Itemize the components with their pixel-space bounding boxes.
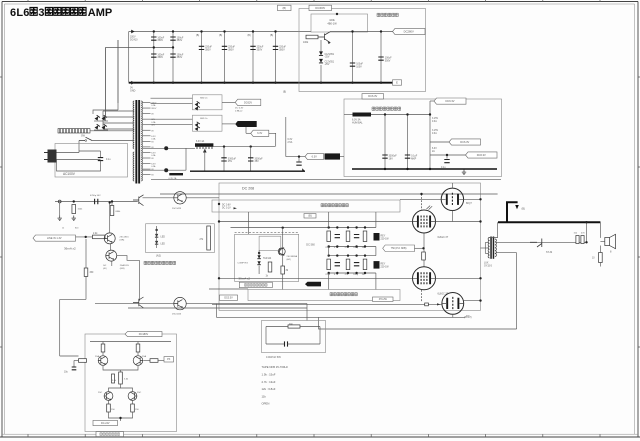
- power resistor dark: [374, 233, 380, 241]
- resistor collector 2: [136, 344, 140, 352]
- bias inner box: [259, 236, 281, 250]
- svg-text:100k: 100k: [303, 41, 309, 44]
- wire down to diff: [59, 299, 61, 356]
- svg-text:2SA: 2SA: [95, 355, 100, 358]
- PT primary winding lower: [133, 152, 134, 181]
- wire riser 2: [117, 40, 119, 110]
- wire heater dc: [429, 101, 431, 169]
- svg-text:(B): (B): [283, 92, 286, 94]
- wire into diff box: [60, 355, 79, 357]
- wire: [158, 360, 164, 362]
- wire speaker +: [600, 241, 604, 243]
- resistor 2.2k in: [93, 235, 106, 239]
- resistor tall 27k: [207, 226, 211, 250]
- power transformer PT core: [135, 100, 137, 184]
- wire PT tap: [143, 157, 151, 159]
- wire PT tap left: [103, 122, 134, 124]
- amplifier section box: [219, 183, 481, 310]
- transistor Q1 cascode top: [104, 233, 115, 244]
- capacitor 0.1uF: [444, 160, 449, 163]
- wire: [430, 154, 466, 156]
- wire 6.3 out: [286, 156, 305, 158]
- junction: [172, 46, 174, 48]
- wire: [73, 361, 75, 367]
- svg-text:(B): (B): [219, 34, 222, 37]
- wire PT tap: [143, 135, 151, 137]
- junction: [446, 154, 448, 156]
- wire: [245, 127, 247, 133]
- NFB compensation box: [262, 321, 326, 353]
- junction: [153, 30, 155, 32]
- LED diode D8: [257, 261, 261, 264]
- bias servo box: [235, 234, 299, 281]
- svg-text:GND: GND: [130, 89, 136, 92]
- resistor emitter: [281, 266, 285, 274]
- junction: [336, 245, 338, 247]
- wire plate upper: [436, 221, 481, 223]
- net tag solid: [325, 153, 341, 159]
- capacitor line filter: [98, 158, 103, 161]
- svg-text:1M: 1M: [362, 274, 365, 276]
- svg-text:2SC: 2SC: [137, 392, 142, 394]
- terminal strip bar 2: [169, 173, 183, 175]
- wire heater: [371, 114, 430, 116]
- svg-text:LED: LED: [161, 243, 166, 245]
- svg-text:220-1W: 220-1W: [381, 238, 390, 240]
- wire to rectifier diodes: [104, 48, 106, 118]
- wire heater ground rail: [190, 170, 305, 172]
- wire diff top rail: [90, 341, 171, 343]
- svg-text:6L6GC 3T: 6L6GC 3T: [438, 237, 449, 239]
- resistor bank: [327, 259, 331, 270]
- tube V4 driver lower: [442, 293, 464, 315]
- resistor bank: [346, 259, 350, 270]
- LED D10: [155, 241, 158, 244]
- svg-text:(A2): (A2): [287, 258, 291, 261]
- wire B+ riser: [104, 48, 106, 122]
- wire bottom join: [109, 412, 133, 418]
- wire: [79, 150, 101, 152]
- wire nfb long: [319, 317, 517, 329]
- svg-text:0.2A: 0.2A: [151, 137, 156, 140]
- capacitor bank: [354, 263, 359, 266]
- dashed screen tap V1: [421, 194, 423, 210]
- power switch SW1: [79, 137, 92, 140]
- LED diode D7: [257, 255, 261, 258]
- wire to rectifier diodes 2: [117, 40, 119, 103]
- net tag rect3: [251, 130, 269, 136]
- junction: [429, 168, 431, 170]
- svg-text:2A: 2A: [432, 150, 435, 153]
- dashed screen tap V2: [421, 290, 423, 302]
- wire: [216, 304, 218, 318]
- label tone switch lower: [330, 293, 357, 296]
- junction: [351, 82, 353, 84]
- svg-text:2SC1815: 2SC1815: [120, 237, 130, 239]
- junction: [328, 272, 330, 274]
- resistor grid stopper: [425, 303, 429, 306]
- svg-text:LUX: LUX: [484, 262, 489, 264]
- net tag PK NFB: [383, 245, 415, 252]
- svg-text:2SA: 2SA: [142, 355, 147, 358]
- wire heater cap branch: [250, 147, 252, 172]
- wire ground rail: [129, 82, 393, 84]
- svg-text:12k : 6.8uF: 12k : 6.8uF: [262, 387, 276, 391]
- wire rect2 out: [222, 123, 235, 125]
- junction: [172, 30, 174, 32]
- arrow right: [234, 207, 237, 209]
- wire to speaker: [599, 222, 601, 238]
- junction: [258, 252, 260, 254]
- bias network box: [146, 224, 215, 253]
- junction: [422, 247, 424, 249]
- junction: [328, 254, 330, 256]
- wire rect1 out: [222, 101, 235, 103]
- wire led string: [258, 250, 260, 255]
- wire: [328, 212, 330, 228]
- junction: [336, 13, 338, 15]
- net tag DC280V out: [393, 28, 426, 34]
- wire: [375, 247, 377, 256]
- svg-text:DC180V: DC180V: [139, 333, 149, 336]
- transistor Q regulator: [318, 32, 330, 44]
- svg-text:350V: 350V: [205, 49, 211, 52]
- gain switch band upper: [212, 200, 400, 212]
- terminal comb: [197, 147, 212, 149]
- svg-text:4B0-1W: 4B0-1W: [327, 22, 337, 26]
- capacitor bank: [335, 235, 340, 238]
- junction: [355, 226, 357, 228]
- svg-text:6.3V: 6.3V: [288, 139, 293, 141]
- transistor Q3 second stage: [174, 192, 186, 204]
- wire: [320, 65, 322, 83]
- junction: [336, 226, 338, 228]
- junction: [298, 155, 300, 157]
- junction: [380, 30, 382, 32]
- resistor tail: [84, 268, 88, 276]
- junction: [420, 193, 422, 195]
- wire rectifier feed: [128, 32, 130, 83]
- wire heater bus: [213, 146, 275, 148]
- wire: [430, 141, 449, 143]
- regulator section box: [299, 9, 426, 92]
- terminal strip bar: [195, 143, 213, 147]
- diode D12: [195, 105, 200, 110]
- fuse bar: [58, 129, 90, 133]
- junction: [218, 220, 220, 222]
- wire 6.3 riser: [285, 117, 287, 157]
- wire: [108, 401, 110, 404]
- svg-text:36mA x2: 36mA x2: [64, 246, 76, 250]
- wire bank top: [329, 255, 376, 257]
- wire ef line 2: [186, 303, 307, 305]
- junction: [347, 254, 349, 256]
- svg-text:0.3A: 0.3A: [432, 132, 437, 135]
- svg-text:0.9A x2: 0.9A x2: [235, 109, 243, 112]
- svg-text:PK: PK: [167, 358, 171, 361]
- capacitor bank: [335, 263, 340, 266]
- wire bank bottom: [329, 272, 376, 274]
- wire PT tap: [143, 168, 151, 170]
- wire 6.3 drop: [269, 133, 276, 146]
- svg-text:(B): (B): [308, 215, 312, 218]
- output transformer OPT core: [490, 237, 492, 259]
- wire: [329, 31, 331, 33]
- junction: [250, 145, 252, 147]
- net tag PK: [164, 357, 174, 362]
- junction: [218, 203, 220, 205]
- svg-text:(A2): (A2): [156, 254, 161, 258]
- OPT secondary winding: [495, 239, 497, 257]
- svg-text:DC6.3V: DC6.3V: [445, 99, 454, 103]
- wire heater secondary 2: [143, 169, 186, 171]
- svg-text:3: 3: [38, 7, 44, 19]
- junction: [328, 245, 330, 247]
- wire filter branch: [275, 32, 277, 83]
- svg-text:SBD 2x: SBD 2x: [200, 118, 208, 120]
- label cascode voltage amp: [144, 261, 176, 264]
- junction: [274, 30, 276, 32]
- capacitor heater filter: [248, 158, 253, 161]
- arrow grid: [437, 303, 440, 305]
- junction: [200, 82, 202, 84]
- wire PT tap: [143, 102, 151, 104]
- wire: [74, 360, 79, 362]
- svg-text:100k: 100k: [329, 18, 335, 22]
- svg-text:0.2A: 0.2A: [151, 165, 156, 168]
- wire PT tap left: [103, 128, 134, 130]
- wire driver plate lower: [464, 300, 481, 302]
- junction: [252, 82, 254, 84]
- junction: [380, 82, 382, 84]
- tube V2 6L6 lower: [413, 267, 436, 290]
- wire PT tap: [143, 113, 151, 115]
- svg-text:AC100V: AC100V: [63, 172, 76, 176]
- wire between tubes: [423, 234, 425, 268]
- wire tail drop: [85, 239, 87, 268]
- svg-text:(6CG7): (6CG7): [464, 317, 472, 319]
- wire input: [76, 236, 93, 238]
- ground heater: [462, 170, 466, 175]
- resistor coupling: [422, 252, 426, 260]
- junction: [85, 236, 87, 238]
- junction: [347, 245, 349, 247]
- svg-text:0.0047uF 50V: 0.0047uF 50V: [266, 356, 281, 359]
- wire: [266, 326, 288, 328]
- wire: [246, 132, 251, 134]
- svg-text:320V: 320V: [151, 108, 157, 110]
- junction: [328, 226, 330, 228]
- arrow heater up: [203, 149, 207, 153]
- wire: [102, 352, 104, 355]
- net tag B3 solid: [305, 282, 321, 287]
- dashed bias line: [235, 231, 299, 233]
- junction: [585, 221, 587, 223]
- wire: [137, 342, 139, 345]
- wire tail drop 2: [85, 276, 87, 299]
- junction: [429, 113, 431, 115]
- svg-text:DC 6.3V: DC 6.3V: [235, 108, 244, 110]
- wire filter branch: [172, 32, 174, 83]
- ground heater rail: [302, 168, 305, 171]
- svg-text:2SA1015: 2SA1015: [120, 264, 130, 267]
- resistor bank: [327, 231, 331, 242]
- net tag DC-24V: [93, 420, 118, 425]
- wire lower grid line: [219, 277, 412, 279]
- capacitor C1a: [170, 37, 175, 40]
- wire regulator output: [330, 31, 393, 33]
- junction: [364, 254, 366, 256]
- transistor Q5: [98, 356, 108, 366]
- svg-text:350V: 350V: [228, 49, 234, 52]
- wire: [111, 202, 113, 206]
- svg-text:3.15V: 3.15V: [432, 118, 438, 120]
- svg-text:DC 560: DC 560: [306, 244, 315, 247]
- wire ef line: [95, 303, 174, 305]
- svg-text:DC 208: DC 208: [242, 187, 254, 191]
- svg-text:DC 0.1V: DC 0.1V: [222, 208, 231, 210]
- junction: [223, 82, 225, 84]
- junction: [164, 146, 168, 150]
- svg-text:25V: 25V: [228, 160, 233, 163]
- gain switch band lower: [248, 290, 400, 301]
- svg-text:6L6: 6L6: [10, 7, 30, 19]
- UL tap marks: [427, 206, 433, 210]
- wire to box: [186, 197, 219, 199]
- wire parallel 2: [128, 307, 307, 309]
- arrow B+ from rectifier: [131, 30, 134, 34]
- wire cap lead: [100, 151, 102, 157]
- wire PT tap: [143, 151, 151, 153]
- svg-text:6.3V: 6.3V: [432, 148, 437, 150]
- wire PT tap: [143, 107, 151, 109]
- svg-text:-25V: -25V: [325, 64, 330, 66]
- capacitor filter: [273, 46, 278, 49]
- svg-text:6FQ7: 6FQ7: [466, 203, 472, 205]
- wire nfb lower: [217, 316, 466, 318]
- net tag B2: [304, 214, 316, 218]
- wire secondary out: [496, 241, 587, 243]
- resistor out: [150, 359, 158, 363]
- wire B+ distribution: [160, 193, 498, 195]
- wire plug live: [57, 152, 80, 154]
- resistor emitter q7: [107, 404, 111, 412]
- svg-text:(GR): (GR): [120, 240, 125, 242]
- wire: [415, 247, 424, 249]
- svg-text:-25V: -25V: [325, 57, 330, 59]
- resistor emitter q8: [131, 404, 135, 412]
- feedback loop box: [311, 14, 368, 32]
- svg-text:4700p 50V: 4700p 50V: [90, 195, 101, 197]
- junction: [479, 277, 481, 279]
- PT secondary winding: [141, 101, 142, 181]
- junction: [73, 200, 75, 202]
- svg-text:DC300V: DC300V: [315, 6, 325, 10]
- junction: [336, 272, 338, 274]
- wire to plug: [78, 141, 80, 153]
- wire PT tap left: [103, 116, 134, 118]
- wire plate lower: [436, 277, 481, 279]
- wire tap to rect1b: [151, 103, 193, 105]
- junction: [320, 82, 322, 84]
- wire: [375, 212, 377, 228]
- wire heater join: [185, 148, 187, 170]
- wire input node: [55, 201, 138, 203]
- svg-text:LED: LED: [161, 236, 166, 238]
- capacitor filter: [250, 46, 255, 49]
- capacitor filter: [222, 46, 227, 49]
- AC plug P1: [48, 150, 57, 163]
- wire: [446, 155, 448, 159]
- wire: [328, 247, 330, 256]
- svg-text:350V: 350V: [157, 39, 163, 42]
- svg-text:E: E: [396, 80, 398, 84]
- wire heater cap branch: [407, 115, 409, 170]
- svg-text:750 (P-K NFB): 750 (P-K NFB): [391, 247, 407, 250]
- transistor Q7: [104, 392, 113, 401]
- wire OPT tap 3: [485, 252, 489, 254]
- junction: [406, 168, 408, 170]
- wire into heater box: [340, 156, 344, 158]
- junction: [119, 417, 121, 419]
- svg-text:(GR): (GR): [120, 268, 125, 270]
- junction: [153, 82, 155, 84]
- svg-text:2SC: 2SC: [98, 392, 103, 394]
- tube V1 6L6 upper: [413, 210, 436, 233]
- wire heater ground: [352, 168, 497, 170]
- net tag B: [278, 5, 292, 10]
- svg-text:0.3A: 0.3A: [432, 120, 437, 123]
- svg-text:REY: REY: [381, 235, 386, 237]
- svg-text:220-1W: 220-1W: [381, 266, 390, 268]
- arrow B+ down: [515, 205, 519, 209]
- junction: [384, 113, 386, 115]
- wire upper grid line: [219, 221, 412, 223]
- resistor tail 2: [112, 374, 115, 383]
- rectifier box 1: [192, 95, 222, 110]
- svg-text:(B): (B): [283, 6, 287, 10]
- net tag heater B: [449, 139, 481, 145]
- resistor diff in: [79, 359, 87, 363]
- svg-text:OPEN: OPEN: [262, 402, 270, 406]
- wire nfb sum: [209, 288, 248, 290]
- wire tail to q7: [109, 384, 121, 391]
- wire emitter 2: [121, 366, 139, 370]
- svg-text:ST-32: ST-32: [546, 252, 553, 254]
- zener diode D1: [319, 51, 323, 55]
- wire PT tap: [143, 146, 151, 148]
- wire driver top: [451, 183, 453, 188]
- capacitor filter: [199, 46, 204, 49]
- wire 2nd cascode: [117, 256, 140, 261]
- net tag 6.3V: [305, 153, 324, 159]
- svg-text:3.15V: 3.15V: [432, 130, 438, 132]
- wire led: [156, 226, 158, 248]
- wire driver grid: [400, 198, 441, 200]
- junction: [406, 113, 408, 115]
- junction: [111, 200, 113, 202]
- wire: [120, 370, 122, 372]
- wire PT tap left: [103, 110, 134, 112]
- wire cap midpoint: [105, 47, 173, 49]
- svg-text:(40): (40): [103, 268, 107, 270]
- net tag DC180V: [125, 332, 162, 337]
- wire tap to rect2b: [151, 124, 193, 126]
- resistor zobel: [599, 253, 603, 263]
- svg-text:DC6.3V: DC6.3V: [368, 94, 377, 98]
- net tag heater C: [466, 152, 498, 158]
- wire: [266, 343, 285, 345]
